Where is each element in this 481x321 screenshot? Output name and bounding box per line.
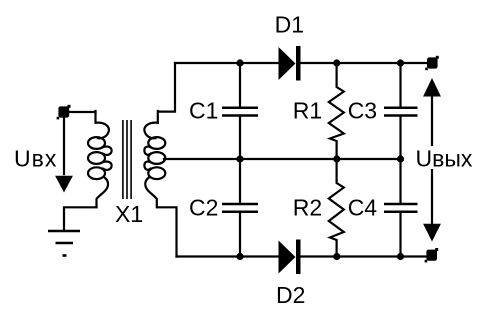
- wire top rail left (to D1 anode): [175, 62, 279, 64]
- svg-text:C1: C1: [189, 98, 218, 124]
- wire middle rail (center tap): [164, 158, 401, 160]
- capacitor C1: [222, 63, 258, 159]
- transformer X1 secondary winding: [144, 111, 165, 207]
- ground: [48, 231, 80, 256]
- label C4: [348, 195, 378, 221]
- svg-text:C4: C4: [348, 195, 378, 221]
- label C1: [189, 98, 218, 124]
- input voltage arrow: [55, 114, 73, 193]
- junction dot bottom rail C4: [397, 253, 404, 260]
- capacitor C3: [384, 63, 418, 159]
- svg-text:Uвых: Uвых: [416, 146, 473, 172]
- diode D1: [279, 46, 301, 81]
- svg-text:D1: D1: [275, 12, 304, 38]
- wire bottom rail right (D2 cathode to output terminal): [301, 255, 431, 257]
- junction dot middle rail R1 R2: [333, 155, 340, 162]
- label D2: [276, 282, 305, 308]
- label Uвх: [14, 146, 57, 172]
- svg-text:C2: C2: [189, 195, 218, 221]
- junction dot top rail C1: [236, 59, 243, 66]
- resistor R2: [329, 159, 344, 257]
- junction dot middle rail C3 C4: [397, 155, 404, 162]
- capacitor C4: [384, 159, 418, 257]
- junction dot top rail R1: [333, 59, 340, 66]
- diode D2: [279, 240, 301, 275]
- svg-text:Uвх: Uвх: [14, 146, 57, 172]
- node output terminal bottom: [425, 248, 439, 262]
- wire bottom rail left (to D2 anode): [177, 255, 279, 257]
- label C3: [348, 98, 377, 124]
- label R1: [293, 98, 322, 124]
- wire input terminal to transformer primary: [63, 111, 96, 113]
- wire secondary top lead to top rail: [158, 63, 175, 112]
- junction dot bottom rail C2: [236, 253, 243, 260]
- label C2: [189, 195, 218, 221]
- svg-text:D2: D2: [276, 282, 305, 308]
- capacitor C2: [222, 159, 258, 257]
- resistor R1: [329, 63, 344, 159]
- output voltage arrow: [423, 78, 441, 242]
- wire secondary bottom lead to bottom rail: [157, 207, 176, 256]
- label R2: [293, 195, 322, 221]
- label Uвых: [414, 146, 476, 172]
- label D1: [275, 12, 304, 38]
- svg-text:R2: R2: [293, 195, 322, 221]
- svg-text:R1: R1: [293, 98, 322, 124]
- junction dot top rail C3: [397, 59, 404, 66]
- node input terminal: [57, 105, 71, 120]
- junction dot middle rail C1 C2: [236, 155, 243, 162]
- label X1: [115, 201, 143, 227]
- svg-text:C3: C3: [348, 98, 377, 124]
- wire top rail right (D1 cathode to output terminal): [301, 62, 431, 64]
- wire primary bottom to ground: [64, 207, 97, 230]
- junction dot bottom rail R2: [333, 253, 340, 260]
- node output terminal top: [425, 56, 439, 70]
- transformer X1 primary winding: [88, 111, 112, 207]
- transformer X1 core: [123, 120, 131, 199]
- svg-text:X1: X1: [115, 201, 143, 227]
